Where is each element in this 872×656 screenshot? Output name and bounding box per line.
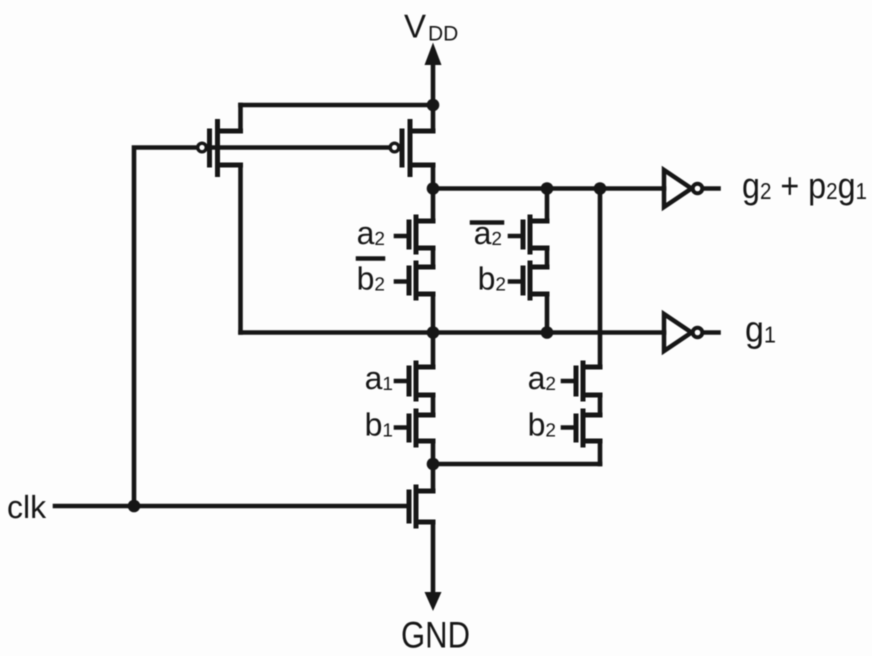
junction dot clk bbox=[128, 500, 141, 513]
junction dot node Y at main column bbox=[427, 326, 440, 339]
wire stack1 column segments bbox=[431, 189, 436, 333]
transistor N5 a1 bbox=[396, 363, 433, 399]
junction dot node X at main column bbox=[427, 182, 440, 195]
label b2 for N4 bbox=[478, 261, 506, 297]
junction dot node X at stack2 bbox=[541, 182, 554, 195]
label a1 for N5 bbox=[365, 360, 393, 396]
svg-text:g1: g1 bbox=[745, 309, 776, 350]
inverter U1 bbox=[664, 170, 719, 207]
transistor N9 clk foot bbox=[409, 487, 433, 526]
wire left pmos source riser to top rail bbox=[238, 105, 243, 131]
label clk bbox=[7, 489, 47, 525]
transistor N1 a2 bbox=[396, 217, 433, 252]
label b2-bar for N2 bbox=[357, 259, 385, 297]
wire foot column segments bbox=[431, 464, 436, 594]
wire top rail bbox=[241, 103, 434, 108]
wire VDD column segments around P2 bbox=[431, 105, 436, 189]
svg-text:g2 + p2g1: g2 + p2g1 bbox=[742, 165, 867, 206]
junction dot node X at x600 bbox=[594, 182, 607, 195]
wire clk input bbox=[55, 504, 409, 509]
wire left pmos drain riser down to node Y bbox=[238, 165, 243, 333]
transistor N6 b1 bbox=[396, 411, 433, 445]
junction dot foot node bbox=[427, 458, 440, 471]
svg-text:DD: DD bbox=[428, 23, 458, 46]
transistor P1 left precharge PMOS bbox=[198, 122, 241, 175]
svg-text:b2: b2 bbox=[528, 407, 556, 443]
svg-text:a2: a2 bbox=[357, 215, 385, 251]
label a2-bar for N3 bbox=[472, 215, 502, 251]
svg-text:clk: clk bbox=[7, 489, 47, 525]
svg-text:GND: GND bbox=[401, 615, 470, 656]
svg-text:a2: a2 bbox=[528, 360, 556, 396]
svg-text:V: V bbox=[404, 8, 426, 45]
svg-text:b2: b2 bbox=[478, 261, 506, 297]
wire node X row bbox=[433, 186, 664, 191]
inverter U2 bbox=[664, 314, 719, 351]
svg-text:a1: a1 bbox=[365, 360, 393, 396]
transistor N4 b2 bbox=[510, 263, 547, 298]
junction dot node Y at stack2 bbox=[541, 326, 554, 339]
wire stack2 column segments bbox=[545, 189, 550, 333]
wire stack a1 b1 column segments bbox=[431, 333, 436, 465]
transistor P2 right precharge PMOS bbox=[390, 122, 433, 175]
transistor N8 b2 lower bbox=[563, 411, 600, 445]
power VDD symbol bbox=[404, 8, 458, 106]
label b2 for N8 bbox=[528, 407, 556, 443]
ground GND symbol bbox=[401, 592, 470, 656]
wire clk riser and pmos gate line bbox=[134, 148, 392, 507]
label a2 for N1 bbox=[357, 215, 385, 251]
transistor N2 b2-bar bbox=[396, 263, 433, 298]
transistor N7 a2 lower bbox=[563, 363, 600, 399]
wire node Y row bbox=[241, 330, 665, 335]
svg-text:b2: b2 bbox=[357, 261, 385, 297]
label g2+p2g1 output bbox=[742, 165, 867, 206]
label a2 for N7 bbox=[528, 360, 556, 396]
label g1 output bbox=[745, 309, 776, 350]
wire second-stage pulldown column x600 bbox=[433, 189, 600, 465]
junction dot VDD rail bbox=[427, 99, 440, 112]
label b1 for N6 bbox=[365, 407, 393, 443]
svg-text:b1: b1 bbox=[365, 407, 393, 443]
transistor N3 a2-bar bbox=[510, 217, 547, 252]
